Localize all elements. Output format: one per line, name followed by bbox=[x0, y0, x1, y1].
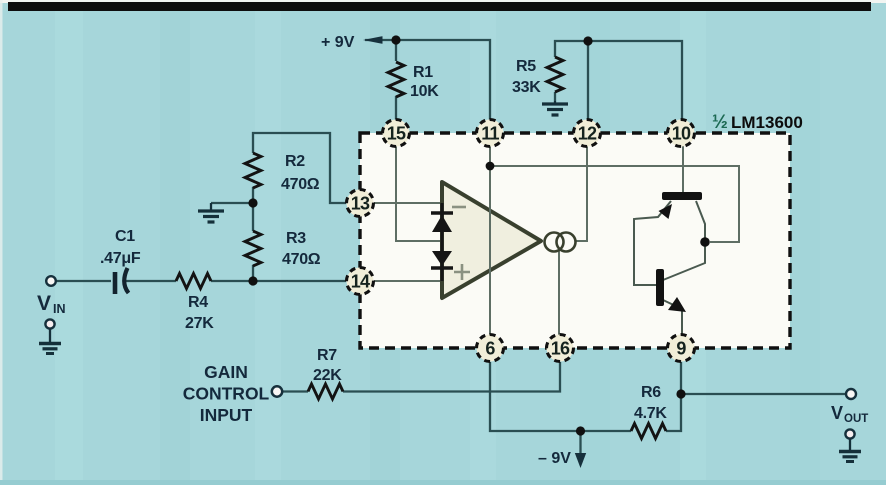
svg-text:GAIN: GAIN bbox=[204, 362, 248, 382]
svg-text:R1: R1 bbox=[413, 64, 433, 81]
wire R2 bottom bbox=[252, 187, 254, 203]
pin 14 bbox=[347, 268, 374, 295]
svg-text:LM13600: LM13600 bbox=[731, 113, 803, 132]
ground stub below Vin bbox=[45, 319, 54, 328]
wire +9V rail bbox=[365, 40, 490, 120]
output current-source circles bbox=[545, 233, 564, 252]
pin 16 bbox=[547, 335, 574, 362]
svg-text:R4: R4 bbox=[188, 294, 208, 311]
node R5 rail / pin12 bbox=[583, 36, 592, 45]
transistor Q2 emitter arrow bbox=[668, 297, 686, 312]
svg-text:½: ½ bbox=[712, 112, 728, 133]
wire R3 top to junction bbox=[252, 203, 254, 231]
node -9V bbox=[576, 426, 585, 435]
wire gain input to R7 bbox=[283, 390, 308, 392]
wire junction to ground bbox=[211, 202, 253, 204]
node R2/R3/ground bbox=[248, 198, 257, 207]
wire R5 top rail to pins 12 and 10 bbox=[555, 41, 682, 120]
wire R5 bottom to ground bbox=[554, 92, 556, 101]
svg-text:15: 15 bbox=[387, 124, 406, 144]
wire R7 to pin16 bbox=[343, 362, 560, 392]
svg-text:V: V bbox=[37, 292, 51, 315]
svg-text:CONTROL: CONTROL bbox=[183, 384, 270, 404]
svg-text:OUT: OUT bbox=[844, 413, 868, 425]
wire top rail inside box to transistor node bbox=[490, 166, 739, 242]
wire R4 to pin14 bbox=[211, 280, 346, 282]
svg-text:33K: 33K bbox=[512, 79, 541, 96]
svg-text:V: V bbox=[831, 403, 843, 423]
wire pin11 through triangle to pin6 bbox=[489, 166, 491, 335]
resistor R6 4.7K bbox=[631, 424, 666, 439]
wire pin12 branch bbox=[587, 41, 589, 120]
svg-text:INPUT: INPUT bbox=[200, 405, 253, 425]
svg-text:R5: R5 bbox=[516, 58, 536, 75]
pin 10 bbox=[668, 120, 695, 147]
svg-text:+ 9V: + 9V bbox=[321, 34, 355, 51]
pin 12 bbox=[574, 120, 601, 147]
terminal Vout bbox=[846, 389, 856, 399]
resistor R5 33K bbox=[547, 57, 563, 92]
pin 9 bbox=[668, 335, 695, 362]
transistor Q2 base bar bbox=[656, 269, 664, 306]
wire R6 right to pin9 bbox=[666, 362, 681, 431]
svg-text:4.7K: 4.7K bbox=[634, 405, 667, 422]
svg-text:22K: 22K bbox=[313, 367, 342, 384]
bottom darker strip bbox=[0, 480, 886, 485]
wire R1 top bbox=[395, 40, 397, 61]
pin 13 bbox=[347, 190, 374, 217]
terminal gain control input bbox=[272, 386, 282, 396]
wire pin14 to op-amp plus input bbox=[374, 280, 442, 282]
svg-text:IN: IN bbox=[53, 302, 66, 316]
svg-text:.47μF: .47μF bbox=[100, 250, 141, 267]
svg-text:16: 16 bbox=[551, 339, 570, 359]
svg-text:– 9V: – 9V bbox=[538, 450, 571, 467]
svg-text:27K: 27K bbox=[185, 315, 214, 332]
wire pin11 top segment bbox=[489, 146, 491, 166]
node transistor collector join bbox=[700, 237, 710, 247]
wire R2 top elbow to pin13 bbox=[253, 133, 346, 203]
svg-text:R3: R3 bbox=[286, 230, 306, 247]
capacitor C1 bbox=[113, 272, 118, 294]
svg-text:R6: R6 bbox=[641, 384, 661, 401]
wire pin15 down to diode midpoint bbox=[396, 146, 441, 241]
svg-text:13: 13 bbox=[351, 194, 370, 214]
resistor R4 27K bbox=[176, 274, 211, 289]
resistor R2 470ohm bbox=[245, 153, 261, 188]
svg-text:6: 6 bbox=[485, 339, 495, 359]
wire pin13 to op-amp minus input bbox=[374, 202, 442, 204]
IC dashed box (1/2 LM13600) bbox=[360, 133, 790, 348]
arrowhead +9V bbox=[363, 36, 383, 44]
resistor R3 470ohm bbox=[245, 231, 261, 266]
resistor R7 22K bbox=[308, 384, 343, 399]
node R3/R4/pin14 bbox=[248, 276, 257, 285]
ground (R2/R3 junction) bbox=[198, 203, 224, 222]
wire R3 bottom bbox=[252, 265, 254, 281]
terminal Vin bbox=[46, 276, 56, 286]
diode D2 (lower, pointing down) bbox=[432, 251, 452, 266]
svg-text:12: 12 bbox=[578, 124, 597, 144]
node +9V/R1 bbox=[391, 35, 400, 44]
svg-text:11: 11 bbox=[481, 124, 499, 144]
wire C1 to R4 bbox=[125, 280, 176, 282]
svg-text:10K: 10K bbox=[410, 83, 439, 100]
wire -9V arrow stem bbox=[579, 431, 581, 456]
internal wires group bbox=[374, 146, 739, 335]
svg-text:R2: R2 bbox=[285, 153, 305, 170]
svg-text:10: 10 bbox=[672, 124, 691, 144]
minus sign bbox=[452, 206, 466, 209]
node pin9/R6/Vout bbox=[676, 389, 685, 398]
node pin11 internal bbox=[486, 162, 495, 171]
transistor Q1 (upper PNP) wires bbox=[634, 201, 705, 335]
arrowhead -9V bbox=[575, 453, 586, 468]
wire pin6 down and across to R6 bbox=[490, 362, 631, 431]
svg-text:9: 9 bbox=[676, 339, 686, 359]
wire Vin to C1 bbox=[56, 280, 111, 282]
wire pin12 down to output circles bbox=[576, 146, 587, 241]
resistor R1 10K bbox=[388, 62, 404, 97]
transistor Q1 base bar bbox=[662, 192, 702, 200]
pin 11 bbox=[477, 120, 504, 147]
wire pin9 junction to Vout bbox=[681, 393, 845, 395]
ground (below R5) bbox=[542, 101, 568, 115]
svg-text:14: 14 bbox=[351, 272, 370, 292]
diode column bbox=[441, 203, 444, 281]
top black border band bbox=[8, 2, 871, 11]
svg-text:470Ω: 470Ω bbox=[281, 176, 320, 193]
pin 6 bbox=[477, 335, 504, 362]
svg-text:R7: R7 bbox=[317, 347, 337, 364]
svg-text:C1: C1 bbox=[115, 228, 135, 245]
pin circles bbox=[347, 120, 695, 362]
wire pin10 down to upper transistor base bbox=[682, 146, 684, 192]
diode D1 (upper, pointing up) bbox=[431, 211, 453, 214]
ground stub below Vout bbox=[845, 429, 854, 438]
wire pin16 up to output circles bbox=[558, 251, 560, 335]
plus sign bbox=[454, 264, 470, 280]
external wires bbox=[56, 40, 845, 456]
pin 15 bbox=[383, 120, 410, 147]
transistor Q1 emitter arrow bbox=[659, 204, 673, 219]
svg-text:470Ω: 470Ω bbox=[282, 251, 321, 268]
top white sliver bbox=[0, 0, 886, 3]
wire R1 bottom to pin15 bbox=[395, 96, 397, 120]
op-amp U1 triangle bbox=[442, 182, 541, 298]
